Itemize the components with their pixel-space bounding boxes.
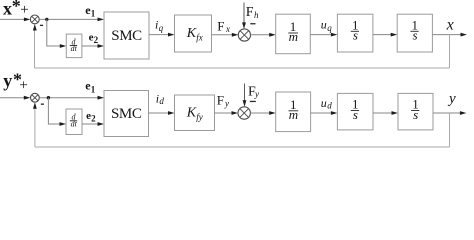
- wire: feedback up into S1b: [34, 107, 36, 147]
- label e1 (bottom): [85, 79, 96, 95]
- arrowhead into integrator 1 (bottom): [331, 111, 338, 115]
- wire: d/dt to SMC (bottom): [82, 123, 100, 125]
- wire: feedback bottom run (bottom): [35, 146, 450, 148]
- label F_h: [246, 5, 259, 20]
- svg-text:SMC: SMC: [111, 28, 142, 44]
- arrowhead e1 into SMC (bottom): [98, 96, 105, 100]
- wire: SMC to Kfy: [149, 112, 170, 114]
- arrowhead into Kfx: [168, 33, 175, 37]
- svg-text:x: x: [446, 17, 454, 34]
- svg-text:y: y: [224, 98, 229, 108]
- arrowhead into integrator 2 (bottom): [392, 111, 399, 115]
- arrowhead output x: [461, 33, 468, 37]
- svg-text:2: 2: [94, 35, 99, 45]
- svg-text:s: s: [413, 107, 418, 122]
- wire: x* input line: [0, 18, 26, 20]
- wire: integrator1 to integrator2 (bottom): [373, 112, 393, 114]
- arrowhead feedback into S1: [33, 24, 37, 31]
- svg-text:K: K: [186, 105, 197, 120]
- svg-text:q: q: [327, 23, 332, 33]
- label F_x: [217, 18, 230, 34]
- svg-text:x: x: [225, 24, 230, 34]
- svg-text:y: y: [3, 71, 12, 91]
- arrowhead e2 into SMC (bottom): [98, 122, 105, 126]
- wire: S2b to 1/m (bottom): [250, 112, 270, 114]
- svg-text:y: y: [254, 89, 259, 99]
- svg-text:d: d: [159, 96, 164, 106]
- wire: S2 to 1/m (top): [251, 34, 271, 36]
- block 1/m (bottom): [276, 92, 311, 132]
- summing junction S1 (top input): [30, 15, 39, 24]
- wire: branch down to d/dt (bottom): [48, 98, 60, 124]
- label u_d: [321, 96, 333, 111]
- block Kfy: [175, 95, 215, 131]
- label x* input: [3, 0, 29, 19]
- arrowhead into S2b: [232, 111, 239, 115]
- svg-text:+: +: [20, 2, 28, 18]
- block 1/s first integrator (bottom): [337, 93, 373, 129]
- arrowhead into Kfy: [168, 111, 175, 115]
- svg-text:dt: dt: [71, 120, 78, 129]
- junction dot (top branch): [45, 18, 48, 21]
- wire: S1 to SMC (e1 path): [39, 18, 99, 20]
- wire: feedback tap down (top): [449, 35, 451, 68]
- arrowhead into 1/m (top): [269, 33, 276, 37]
- svg-text:u: u: [321, 96, 327, 110]
- wire: 1/m to integrator 1 (bottom): [311, 112, 332, 114]
- svg-text:dt: dt: [71, 44, 78, 53]
- wire: Kfx to summing junction S2: [212, 34, 234, 36]
- label minus at S1: [40, 25, 43, 26]
- block 1/s second integrator (top): [397, 14, 432, 52]
- svg-text:u: u: [321, 18, 327, 32]
- arrowhead into d/dt (bottom): [60, 122, 67, 126]
- svg-text:s: s: [353, 28, 358, 43]
- block d/dt (bottom): [66, 109, 82, 135]
- wire: output x line: [432, 34, 461, 36]
- arrowhead into integrator 1 (top): [331, 33, 338, 37]
- wire: branch down to d/dt (top): [47, 19, 61, 46]
- label e2 (top): [89, 32, 99, 46]
- wire: feedback up into S1: [34, 29, 36, 69]
- wire: feedback tap down (bottom): [449, 113, 451, 147]
- wire: S1b to SMC (e1 path bottom): [40, 97, 100, 99]
- svg-text:K: K: [186, 26, 197, 41]
- arrowhead F_y disturbance into S2b: [243, 100, 247, 107]
- arrowhead output y: [460, 111, 467, 115]
- svg-text:SMC: SMC: [111, 106, 142, 122]
- wire: F_h disturbance vertical: [243, 3, 245, 25]
- wire: output y line: [433, 112, 461, 114]
- arrowhead into integrator 2 (top): [391, 33, 398, 37]
- svg-text:fx: fx: [196, 32, 203, 42]
- label i_q: [155, 18, 164, 33]
- label e1 (top): [85, 3, 96, 19]
- svg-text:F: F: [217, 93, 224, 108]
- summing junction S2b (bottom): [238, 107, 250, 119]
- label F_y (output of Kfy): [217, 93, 229, 109]
- arrowhead into 1/m (bottom): [269, 111, 276, 115]
- svg-text:+: +: [19, 78, 27, 94]
- block d/dt (top): [66, 34, 82, 58]
- block SMC (bottom): [104, 91, 149, 137]
- wire: F_y disturbance vertical: [244, 84, 246, 103]
- arrowhead into S2: [232, 33, 239, 37]
- svg-text:q: q: [159, 23, 164, 33]
- label e2 (bottom): [86, 110, 96, 124]
- svg-text:fy: fy: [196, 112, 203, 122]
- wire: d/dt to SMC (top): [82, 45, 100, 47]
- arrowhead F_h into S2: [242, 22, 246, 29]
- svg-text:F: F: [246, 5, 254, 20]
- svg-text:h: h: [254, 10, 259, 20]
- wire: Kfy to summing junction S2b: [215, 112, 233, 114]
- summing junction S1b (bottom input): [31, 93, 40, 102]
- svg-text:s: s: [353, 107, 358, 122]
- label y* input: [3, 70, 28, 94]
- block Kfx: [175, 15, 212, 52]
- svg-text:s: s: [412, 28, 417, 43]
- arrowhead e1 into SMC: [98, 18, 105, 22]
- label minus at S2: [250, 23, 255, 24]
- block 1/m (top): [276, 14, 311, 54]
- label i_d: [156, 92, 165, 107]
- arrowhead e2 into SMC (top): [98, 44, 105, 48]
- arrowhead into d/dt (top): [60, 44, 67, 48]
- svg-text:x: x: [3, 0, 12, 19]
- label minus at S1b: [41, 104, 44, 105]
- svg-text:1: 1: [91, 84, 96, 94]
- junction dot (bottom branch): [47, 96, 50, 99]
- svg-text:2: 2: [91, 114, 96, 124]
- wire: feedback bottom run (top): [35, 67, 450, 69]
- arrowhead into summing junction S1: [24, 18, 31, 22]
- wire: integrator1 to integrator2 (top): [373, 34, 392, 36]
- svg-text:F: F: [217, 18, 224, 33]
- block SMC (top): [104, 12, 149, 59]
- label F_y disturbance: [248, 85, 259, 100]
- svg-text:y: y: [447, 91, 456, 107]
- label minus at S2b: [250, 101, 256, 102]
- summing junction S2 (top): [238, 29, 250, 41]
- wire: SMC to Kfx (top): [149, 34, 169, 36]
- svg-text:m: m: [289, 107, 298, 122]
- svg-text:d: d: [327, 101, 332, 111]
- block 1/s second integrator (bottom): [398, 93, 433, 129]
- svg-text:1: 1: [91, 9, 96, 19]
- label u_q: [321, 18, 333, 33]
- block 1/s first integrator (top): [337, 14, 373, 52]
- wire: y* input line: [0, 97, 26, 99]
- wire: 1/m to integrator 1 (top): [310, 34, 332, 36]
- arrowhead into summing junction S1b: [24, 96, 31, 100]
- svg-text:m: m: [289, 29, 298, 44]
- arrowhead feedback into S1b: [33, 102, 37, 109]
